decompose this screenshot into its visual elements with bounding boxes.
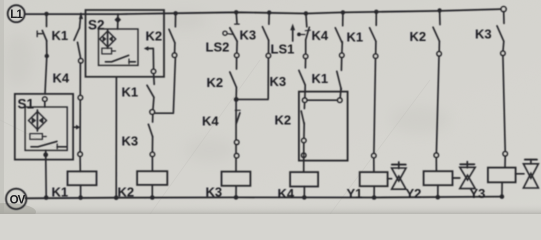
wire coil K2 to 0V	[151, 185, 153, 198]
wire S1 to 0V rail	[45, 150, 48, 197]
wire rung D to coil K2	[151, 137, 153, 152]
wire rung F mid	[236, 41, 238, 53]
node rung J / rail	[437, 8, 441, 12]
supply terminal L1	[8, 5, 25, 22]
valve symbol 1	[392, 162, 406, 189]
label K1 (group box)	[312, 71, 329, 86]
node rung LS1 ring	[303, 54, 307, 58]
contact K1 (NC with manual actuator, rung A)	[37, 31, 47, 42]
label K3 (rung G)	[240, 28, 257, 43]
contact K3 (rung G)	[262, 27, 268, 41]
sensor S1 box	[15, 94, 73, 160]
node rung E ring	[172, 53, 176, 57]
svg-text:K1: K1	[312, 71, 329, 86]
proximity symbol S2 (diamond)	[100, 30, 116, 48]
power rail 0V (bottom)	[25, 197, 502, 199]
contact K3 (rung K)	[497, 26, 504, 41]
contact K1 (rung I)	[370, 28, 376, 42]
coil Y3	[488, 168, 516, 183]
node above coil Y1	[372, 153, 376, 157]
label K2 (rung E)	[146, 29, 163, 44]
wire rung I	[375, 41, 377, 53]
wire coil K1 to 0V	[80, 185, 82, 197]
tick on K3 feed	[235, 109, 240, 111]
supply terminal 0V	[6, 189, 26, 209]
wire rung K long	[503, 56, 505, 152]
wire rung H lower	[340, 58, 342, 71]
wire into coil K2	[151, 157, 153, 172]
contact K3 (rung D lower)	[148, 114, 152, 136]
wire into coil Y2	[435, 157, 437, 171]
svg-text:K2: K2	[207, 75, 224, 90]
wire rung H top	[342, 12, 344, 25]
label Y1 (coil)	[347, 186, 363, 201]
svg-text:K4: K4	[53, 71, 70, 86]
valve symbol 3	[523, 160, 538, 188]
label LS1	[271, 42, 295, 57]
label S1	[18, 97, 35, 112]
bottom-left corner smudge	[0, 203, 36, 221]
node F/G junction	[234, 97, 239, 102]
node above coil Y3	[503, 152, 507, 156]
node rung I ring	[373, 54, 377, 58]
proximity symbol S1 (diamond)	[29, 110, 47, 131]
wire rung A top	[46, 14, 48, 27]
svg-text:LS2: LS2	[206, 40, 230, 55]
label LS2	[206, 40, 230, 55]
label K4 (rung A)	[53, 71, 70, 86]
node rung K ring	[501, 51, 505, 55]
coil Y2	[424, 171, 453, 185]
svg-text:K4: K4	[312, 28, 329, 43]
coil K1	[68, 171, 97, 185]
node coil K2 / 0V rail	[150, 195, 155, 200]
coil Y1	[360, 172, 388, 186]
label Y2	[406, 186, 422, 201]
node rung H / rail	[341, 10, 345, 14]
contact inside S2	[105, 55, 135, 63]
coil K2	[137, 171, 167, 185]
node coil Y1 / 0V rail	[372, 195, 377, 200]
node coil K3 / 0V rail	[234, 195, 239, 200]
wire rung F	[236, 58, 238, 69]
node rung A / rail	[44, 12, 48, 16]
svg-text:LS1: LS1	[271, 42, 295, 57]
label S2	[88, 18, 105, 33]
node rung B lower ring	[78, 152, 82, 156]
wire rung B top with up arrow	[79, 13, 83, 29]
node rung D/E junction ring	[150, 110, 155, 115]
svg-text:K4: K4	[278, 186, 295, 201]
svg-text:K4: K4	[202, 114, 219, 129]
svg-text:S1: S1	[18, 97, 35, 112]
label K1 (coil)	[52, 185, 69, 200]
contact K2 (rung J)	[433, 27, 439, 41]
wire rung G top	[268, 13, 270, 25]
contact K1 (rung B)	[74, 28, 79, 40]
wire rung F down to coil K3	[235, 100, 237, 172]
wire group box to coil K4	[303, 143, 305, 172]
node K3 feed ring 1	[235, 140, 239, 144]
sensor S1 inner box	[25, 107, 67, 150]
label 0V	[10, 194, 26, 206]
rail end node (ring)	[501, 7, 506, 12]
label K3 (rung K)	[475, 27, 492, 42]
soft gray blotches	[4, 11, 450, 162]
wire into group box	[304, 85, 306, 98]
label K2 (group box contact)	[275, 113, 292, 128]
wire coil Y3 to valve 3	[516, 173, 524, 175]
node rung F ring	[235, 53, 239, 57]
node above coil K2	[150, 152, 154, 156]
label K1 (rung I)	[347, 30, 364, 45]
svg-text:K3: K3	[122, 134, 139, 149]
wire coil Y2 to 0V	[437, 185, 439, 197]
arrow S2 output	[144, 46, 154, 51]
node rung F / rail	[234, 10, 238, 14]
node rung C / 0V rail	[114, 195, 119, 200]
contact LS2 (limit switch, rung F)	[223, 28, 237, 41]
wire rung H	[341, 42, 343, 53]
svg-text:K2: K2	[275, 113, 292, 128]
node S2 output ring	[151, 69, 155, 73]
label K1 (rung D)	[122, 85, 139, 100]
node rung LS1 / rail	[304, 11, 308, 15]
wire coil Y1 to valve 1	[388, 178, 392, 180]
label Y3	[470, 186, 486, 201]
wire rung B into coil K1	[79, 156, 81, 171]
group box K1	[299, 92, 348, 161]
wire rung I long	[374, 58, 376, 153]
left photo edge shadow	[0, 0, 4, 214]
bar inside group box	[307, 99, 338, 101]
wire rung E (K2 branch)	[155, 58, 176, 114]
label L1	[10, 9, 23, 21]
output element S1 (small rect)	[30, 134, 46, 140]
contact K4 (rung H)	[335, 28, 342, 43]
valve symbol 2	[460, 162, 475, 189]
wire rung C into S2	[117, 14, 119, 29]
svg-text:K2: K2	[410, 29, 427, 44]
wire into coil Y3	[504, 156, 506, 168]
wire rung E below contact	[174, 43, 176, 53]
power rail L1 (top)	[25, 9, 501, 14]
contact K1 (rung D)	[147, 85, 154, 97]
contact inside group box	[301, 102, 304, 124]
node rung G ring	[266, 53, 270, 57]
svg-text:L1: L1	[10, 9, 23, 21]
wire into coil Y1	[373, 158, 375, 172]
node bar left ring	[303, 98, 307, 102]
output element S2 (small rect)	[102, 48, 116, 54]
faint crease lines	[0, 60, 430, 214]
wire stub rung D	[153, 74, 156, 85]
svg-text:K1: K1	[122, 85, 139, 100]
svg-text:K3: K3	[240, 28, 257, 43]
bottom photo edge shadow	[0, 203, 541, 214]
node rung E / rail	[173, 11, 177, 15]
node coil Y2 / 0V rail	[436, 195, 441, 200]
label K1 (rung A)	[52, 28, 69, 43]
coil K3	[222, 172, 251, 186]
node K3 feed ring 2	[234, 154, 238, 158]
wire rung F top	[235, 12, 238, 23]
wire coil Y1 to 0V	[373, 186, 375, 197]
label K2 (rung J)	[410, 29, 427, 44]
wire rung D	[153, 97, 154, 110]
svg-text:Y3: Y3	[470, 186, 486, 201]
contact K2 (rung F)	[230, 72, 237, 87]
sensor S2 box	[86, 10, 165, 77]
svg-text:Y1: Y1	[347, 186, 363, 201]
svg-text:K3: K3	[475, 27, 492, 42]
label K3 (rung D lower)	[122, 134, 139, 149]
node rung C / rail (fat diamond dot)	[115, 16, 122, 23]
node S1 bottom	[43, 152, 48, 157]
sensor S2 inner box	[99, 29, 139, 65]
node rung I / rail	[374, 10, 378, 14]
wire coil K4 to 0V	[303, 187, 305, 198]
node coil K1 / 0V rail	[78, 195, 83, 200]
arrow S1 output to rung B	[73, 125, 80, 130]
wire S2 output down	[152, 49, 154, 70]
svg-text:K1: K1	[52, 185, 69, 200]
node coil Y3 / 0V rail	[500, 194, 505, 199]
wire rung F to junction	[235, 87, 237, 98]
wire inside group box	[303, 123, 305, 141]
wire coil Y3 to 0V	[501, 182, 503, 196]
svg-text:K2: K2	[146, 29, 163, 44]
wire coil K3 to 0V	[235, 186, 237, 198]
label K4 (coil)	[278, 186, 295, 201]
contact K4 on K3 feed	[236, 113, 240, 124]
coil K4	[290, 172, 318, 186]
wire rung K	[502, 41, 505, 51]
node rung H ring	[340, 53, 344, 57]
node above coil Y2	[434, 153, 438, 157]
wire rung K top	[503, 12, 505, 24]
svg-text:K3: K3	[206, 185, 223, 200]
contact LS1 (limit switch with up arrow)	[290, 24, 310, 41]
wire rung H into group box	[339, 88, 342, 98]
wire rung B middle	[78, 42, 81, 154]
node K4 tap	[45, 54, 49, 58]
wire rung E top	[174, 13, 176, 26]
svg-text:S2: S2	[88, 18, 105, 33]
node coil K4 / 0V rail	[302, 195, 307, 200]
wire into S1 inner box	[44, 101, 46, 107]
wire rung J	[438, 41, 440, 51]
contact K1 (rung H)	[337, 71, 342, 89]
svg-text:K1: K1	[52, 28, 69, 43]
node S1 input	[43, 97, 47, 101]
node group box ring 2	[302, 153, 306, 157]
wire rung LS1 top	[305, 13, 308, 26]
wire rung J long	[436, 56, 439, 153]
tick on rung F	[235, 23, 240, 25]
wire rung I top	[375, 12, 377, 25]
contact inside S1	[31, 141, 67, 148]
label K2 (coil)	[118, 185, 135, 200]
svg-text:OV: OV	[10, 194, 26, 206]
svg-text:K1: K1	[347, 30, 364, 45]
node group box ring	[302, 138, 306, 142]
wire rung A to S1	[45, 41, 47, 94]
contact K3 (rung LS1)	[299, 70, 305, 85]
label K3 (coil)	[206, 185, 223, 200]
wire rung G (K3 branch)	[238, 58, 269, 99]
svg-text:K3: K3	[270, 74, 287, 89]
node bar right ring	[338, 98, 342, 102]
wire rung G below contact	[268, 40, 270, 53]
wire rung C below S2 to 0V	[115, 77, 117, 198]
wire rung LS1	[305, 40, 307, 54]
label K3 (rung LS1)	[270, 74, 287, 89]
label K4 (K3 feed)	[202, 114, 219, 129]
node rung B mid ring	[78, 95, 82, 99]
wire rung LS1 lower	[304, 59, 306, 68]
contact K2 (rung E)	[169, 29, 175, 43]
svg-text:K2: K2	[118, 185, 135, 200]
node rung J ring	[437, 52, 441, 56]
svg-text:Y2: Y2	[406, 186, 422, 201]
node rung A / 0V rail	[44, 195, 49, 200]
label K4 (rung H)	[312, 28, 329, 43]
node rung G / rail	[267, 10, 271, 14]
label K2 (rung F)	[207, 75, 224, 90]
node rung B upper ring	[79, 59, 83, 63]
wire rung J top	[439, 11, 441, 25]
wire coil Y2 to valve 2	[453, 177, 460, 179]
